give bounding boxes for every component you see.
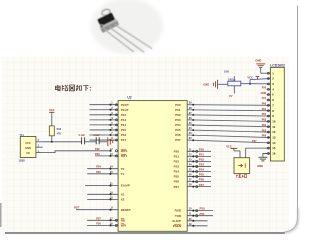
svg-text:P24: P24	[199, 168, 205, 172]
svg-text:GND: GND	[255, 59, 261, 63]
svg-text:P24: P24	[174, 170, 180, 174]
svg-text:P11/T: P11/T	[121, 108, 129, 112]
svg-text:P07: P07	[252, 140, 257, 143]
svg-text:R10: R10	[57, 128, 62, 131]
svg-text:P20: P20	[174, 149, 180, 153]
svg-text:INT1: INT1	[121, 154, 128, 158]
svg-text:P04: P04	[175, 123, 181, 127]
svg-text:P13: P13	[121, 118, 127, 122]
svg-text:WR: WR	[121, 224, 127, 228]
svg-text:PV: PV	[229, 95, 233, 98]
svg-text:P37: P37	[96, 216, 101, 220]
svg-text:P04: P04	[262, 124, 267, 127]
svg-text:P17: P17	[121, 138, 127, 142]
svg-text:P27: P27	[199, 183, 205, 187]
svg-text:0.1uF: 0.1uF	[93, 134, 100, 137]
svg-text:P02: P02	[175, 113, 181, 117]
svg-text:P22: P22	[174, 160, 180, 164]
svg-text:P02: P02	[262, 113, 267, 116]
svg-text:P07: P07	[175, 138, 181, 142]
svg-text:P35: P35	[96, 170, 101, 174]
svg-text:P00: P00	[175, 103, 181, 107]
svg-text:47K: 47K	[57, 132, 62, 135]
svg-text:P26: P26	[174, 180, 180, 184]
svg-text:14: 14	[272, 141, 276, 145]
svg-text:13: 13	[272, 136, 276, 140]
svg-text:P03: P03	[175, 118, 181, 122]
svg-text:P06: P06	[262, 135, 267, 138]
svg-text:16: 16	[272, 152, 276, 156]
svg-text:VCC: VCC	[25, 141, 31, 145]
svg-text:INT0: INT0	[121, 149, 128, 153]
svg-text:TXD: TXD	[175, 214, 182, 218]
svg-text:P34: P34	[96, 165, 101, 169]
svg-text:P10/T: P10/T	[121, 103, 129, 107]
svg-text:10: 10	[272, 119, 276, 123]
svg-text:P25: P25	[199, 173, 205, 177]
svg-text:P23: P23	[174, 165, 180, 169]
svg-text:X1: X1	[121, 192, 125, 196]
svg-text:EA/VP: EA/VP	[121, 184, 130, 188]
svg-text:VCC: VCC	[247, 76, 253, 80]
svg-text:VCC: VCC	[49, 108, 55, 112]
svg-text:P14: P14	[121, 123, 127, 127]
svg-text:P20: P20	[199, 147, 205, 151]
svg-text:10K: 10K	[224, 69, 229, 73]
svg-text:T0: T0	[121, 167, 125, 171]
svg-text:0.1uF: 0.1uF	[79, 134, 86, 137]
svg-text:GND: GND	[261, 92, 267, 95]
svg-text:P05: P05	[262, 129, 267, 132]
svg-text:1602: 1602	[228, 79, 234, 82]
svg-text:P03: P03	[262, 119, 267, 122]
svg-text:GND: GND	[203, 82, 209, 86]
svg-text:P21: P21	[199, 152, 205, 156]
svg-text:X2: X2	[121, 198, 125, 202]
svg-text:ALE/P: ALE/P	[172, 219, 181, 223]
svg-text:P25: P25	[174, 175, 180, 179]
svg-text:P32: P32	[95, 147, 100, 151]
svg-text:P00: P00	[262, 103, 267, 106]
svg-text:P15: P15	[121, 128, 127, 132]
svg-text:P30: P30	[200, 207, 206, 211]
svg-text:1838: 1838	[19, 159, 25, 163]
svg-text:P06: P06	[175, 133, 181, 137]
svg-text:U2: U2	[127, 96, 131, 100]
svg-text:11: 11	[272, 125, 275, 129]
svg-text:P20: P20	[262, 86, 267, 89]
svg-text:P33: P33	[95, 152, 100, 156]
svg-text:P23: P23	[199, 163, 205, 167]
svg-text:GND: GND	[25, 146, 31, 150]
svg-text:GND: GND	[257, 164, 263, 168]
svg-text:RXD: RXD	[175, 209, 182, 213]
svg-text:P01: P01	[175, 108, 181, 112]
svg-text:I/O: I/O	[26, 151, 29, 155]
svg-text:PSEN: PSEN	[173, 224, 181, 228]
svg-text:P31: P31	[200, 212, 206, 216]
svg-text:P36: P36	[96, 221, 101, 225]
svg-text:RST: RST	[74, 206, 80, 210]
svg-text:P01: P01	[262, 108, 267, 111]
svg-text:T1: T1	[121, 172, 125, 176]
svg-text:12: 12	[272, 130, 276, 134]
svg-text:P26: P26	[199, 178, 205, 182]
svg-text:P12: P12	[121, 113, 127, 117]
svg-text:P16: P16	[121, 133, 127, 137]
svg-text:P27: P27	[174, 185, 180, 189]
svg-text:P21: P21	[174, 154, 180, 158]
svg-text:15: 15	[272, 146, 276, 150]
svg-text:P22: P22	[199, 158, 205, 162]
svg-text:P21: P21	[262, 97, 267, 100]
svg-text:P05: P05	[175, 128, 181, 132]
svg-text:RESET: RESET	[121, 208, 131, 212]
